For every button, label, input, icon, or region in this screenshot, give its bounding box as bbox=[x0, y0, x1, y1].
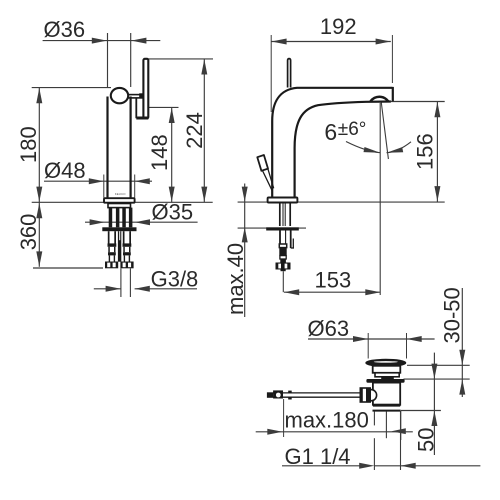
svg-text:30-50: 30-50 bbox=[440, 287, 465, 343]
svg-text:G3/8: G3/8 bbox=[151, 267, 199, 292]
svg-text:156: 156 bbox=[413, 133, 438, 170]
svg-text:Ø63: Ø63 bbox=[308, 316, 350, 341]
svg-text:6: 6 bbox=[324, 119, 337, 145]
svg-text:KEUCO: KEUCO bbox=[115, 192, 126, 196]
svg-text:max.40: max.40 bbox=[223, 243, 248, 315]
svg-text:Ø48: Ø48 bbox=[44, 158, 86, 183]
svg-text:224: 224 bbox=[182, 112, 207, 149]
svg-text:153: 153 bbox=[315, 268, 352, 293]
svg-text:Ø35: Ø35 bbox=[152, 200, 194, 225]
svg-text:192: 192 bbox=[320, 14, 357, 39]
svg-text:360: 360 bbox=[16, 214, 41, 251]
svg-text:G1 1/4: G1 1/4 bbox=[285, 444, 351, 469]
svg-text:max.180: max.180 bbox=[285, 408, 369, 433]
svg-text:180: 180 bbox=[16, 126, 41, 163]
svg-text:50: 50 bbox=[414, 428, 439, 452]
svg-text:±6°: ±6° bbox=[338, 119, 367, 140]
svg-text:Ø36: Ø36 bbox=[44, 17, 86, 42]
svg-text:148: 148 bbox=[147, 134, 172, 171]
